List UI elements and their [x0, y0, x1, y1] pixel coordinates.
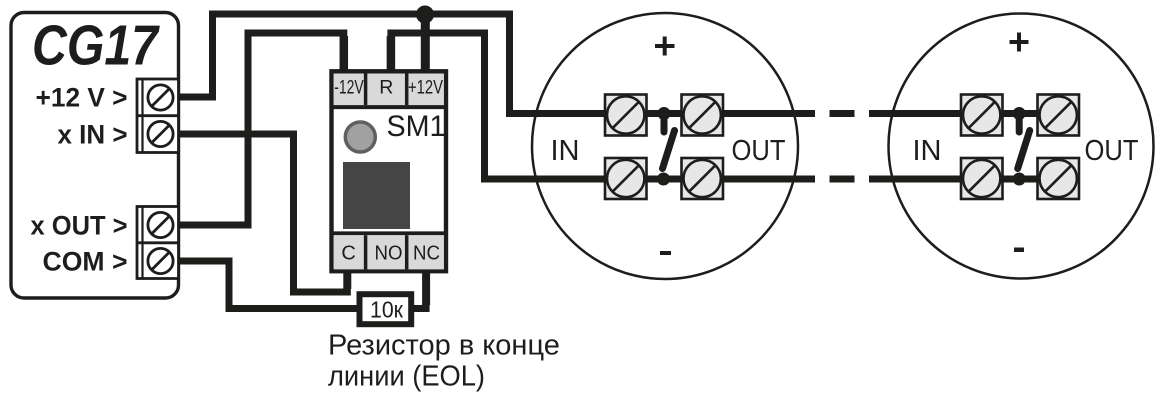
wire stub widening at SM1 NC terminal — [422, 264, 430, 305]
wire W13: D2 switch stub from top junction — [1016, 114, 1023, 133]
module SM1 bottom row divider 1 — [364, 235, 368, 269]
svg-text:Резистор в конце: Резистор в конце — [328, 330, 560, 362]
device CG17 outline — [11, 13, 179, 299]
wire W3: CG17 x IN to SM1 C terminal — [178, 134, 347, 292]
terminal D2 bottom-right — [1038, 158, 1080, 199]
switch blade in detector D1 — [663, 131, 675, 169]
wire W11: detector 2 internal top wire — [869, 110, 1045, 117]
wire W7: SM1 NC terminal to resistor right lead — [408, 266, 426, 309]
svg-text:NC: NC — [413, 243, 440, 265]
wire W2: junction dot down to SM1 +12V terminal — [421, 14, 430, 76]
wire W8: detector 1 internal top wire — [608, 110, 815, 117]
terminal D2 top-left — [961, 95, 1003, 136]
svg-text:OUT: OUT — [732, 135, 786, 167]
wire W6: SM1 R terminal to detector 1 minus line — [391, 33, 608, 179]
svg-text:IN: IN — [551, 135, 580, 167]
module SM1 top row divider 2 — [405, 74, 409, 106]
switch blade in detector D2 — [1018, 131, 1030, 169]
detector D2 minus polarity mark — [1014, 248, 1024, 253]
svg-text:NO: NO — [375, 243, 403, 265]
wire W10: D1 switch stub from top junction — [661, 114, 668, 133]
detector D1 minus polarity mark — [660, 251, 671, 255]
wire W1: CG17 +12V to top rail, to SM1 +12V and detector 1 plus line — [178, 14, 608, 114]
svg-text:-12V: -12V — [334, 77, 364, 99]
wire W4: CG17 x OUT to SM1 -12V terminal — [178, 33, 344, 225]
module SM1 bottom row top border — [332, 231, 447, 235]
wire stub widening at SM1 C terminal — [343, 264, 351, 289]
svg-text:CG17: CG17 — [32, 14, 160, 78]
svg-text:SM1: SM1 — [387, 110, 446, 143]
node D2 top junction dot — [1013, 107, 1026, 120]
terminal block TB2 (x OUT / COM) outline — [137, 207, 179, 279]
relay body (dark square) on SM1 — [343, 162, 410, 229]
terminal screw +12V — [148, 85, 173, 110]
svg-text:COM >: COM > — [43, 247, 128, 277]
module SM1 top row divider 1 — [364, 74, 368, 106]
svg-text:+12 V >: +12 V > — [36, 83, 128, 113]
terminal D2 bottom-left — [961, 158, 1003, 199]
resistor R1 (EOL 10k) body — [360, 294, 412, 324]
module SM1 top row bottom border — [332, 105, 447, 109]
terminal D1 bottom-left — [605, 158, 647, 199]
detector D2 housing circle — [889, 14, 1154, 279]
svg-text:x OUT >: x OUT > — [31, 211, 128, 241]
svg-text:10к: 10к — [370, 297, 404, 323]
node A: junction dot on +12V top rail — [416, 6, 434, 24]
terminal screw COM — [148, 248, 173, 273]
svg-text:C: C — [341, 243, 355, 265]
module SM1 body — [332, 71, 447, 271]
module SM1 bottom terminal row background — [334, 235, 444, 269]
node D2 bottom junction dot — [1013, 173, 1026, 186]
svg-text:линии (EOL): линии (EOL) — [328, 361, 485, 393]
wire stub widening at SM1 R terminal — [387, 36, 396, 76]
terminal D1 bottom-right — [682, 158, 724, 199]
node D1 top junction dot — [658, 107, 671, 120]
module SM1 top terminal row background — [334, 74, 444, 108]
wire W12: detector 2 internal bottom wire — [869, 176, 1045, 183]
terminal screw x IN — [148, 121, 173, 146]
svg-text:x IN >: x IN > — [58, 120, 128, 150]
wire W5: CG17 COM to resistor left lead — [178, 261, 362, 309]
svg-text:R: R — [379, 77, 393, 99]
svg-text:+12V: +12V — [408, 77, 443, 99]
detector D1 plus polarity mark — [655, 37, 675, 56]
svg-text:IN: IN — [913, 135, 942, 167]
terminal D2 top-right — [1038, 95, 1080, 136]
wire dash segment bottom line — [830, 176, 855, 183]
detector D1 housing circle — [532, 13, 798, 279]
terminal block TB1 (+12V / x IN) outline — [137, 79, 179, 153]
svg-text:OUT: OUT — [1085, 135, 1139, 167]
LED indicator on SM1 — [345, 122, 375, 152]
node D1 bottom junction dot — [657, 173, 670, 186]
terminal D1 top-left — [605, 95, 647, 136]
wire dash segment top line — [830, 110, 855, 117]
detector D2 plus polarity mark — [1010, 33, 1029, 52]
wire stub widening at SM1 -12V terminal — [340, 36, 349, 76]
terminal D1 top-right — [682, 95, 724, 136]
terminal screw x OUT — [148, 212, 173, 237]
wire W9: detector 1 internal bottom wire — [608, 176, 815, 183]
module SM1 bottom row divider 2 — [405, 235, 409, 269]
